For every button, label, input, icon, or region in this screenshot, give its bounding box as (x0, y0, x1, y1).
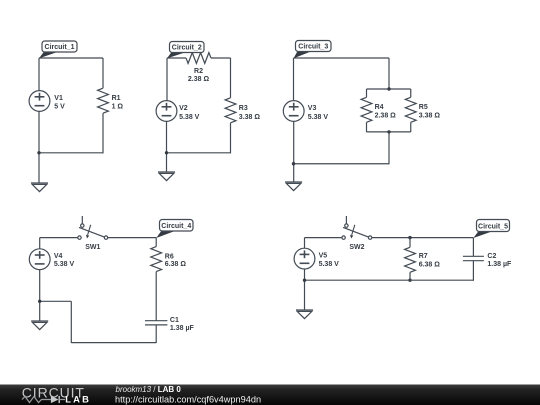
svg-text:Circuit_5: Circuit_5 (478, 224, 508, 231)
svg-text:R7: R7 (419, 253, 428, 260)
svg-text:2.38 Ω: 2.38 Ω (188, 76, 210, 83)
svg-text:SW1: SW1 (85, 244, 100, 251)
svg-text:3.38 Ω: 3.38 Ω (419, 112, 441, 119)
svg-text:brookm13 / LAB 0: brookm13 / LAB 0 (116, 385, 182, 394)
svg-text:5.38 V: 5.38 V (308, 114, 329, 121)
svg-text:Circuit_4: Circuit_4 (161, 223, 191, 230)
svg-text:1.38 µF: 1.38 µF (170, 325, 195, 332)
svg-text:C1: C1 (170, 317, 179, 324)
svg-text:1 Ω: 1 Ω (112, 104, 124, 111)
svg-text:Circuit_3: Circuit_3 (298, 44, 328, 51)
svg-text:http://circuitlab.com/cqf6v4wp: http://circuitlab.com/cqf6v4wpn94dn (115, 394, 261, 404)
svg-text:6.38 Ω: 6.38 Ω (165, 261, 187, 268)
svg-text:V5: V5 (319, 253, 328, 260)
svg-text:2.38 Ω: 2.38 Ω (375, 112, 397, 119)
svg-text:5.38 V: 5.38 V (319, 261, 340, 268)
svg-text:6.38 Ω: 6.38 Ω (419, 262, 441, 269)
svg-text:R1: R1 (112, 95, 121, 102)
svg-text:5.38 V: 5.38 V (179, 114, 200, 121)
svg-text:Circuit_2: Circuit_2 (172, 45, 202, 52)
svg-text:R2: R2 (194, 68, 203, 75)
svg-text:5 V: 5 V (54, 104, 65, 111)
svg-text:V4: V4 (54, 253, 63, 260)
svg-text:Circuit_1: Circuit_1 (45, 44, 75, 51)
svg-text:R3: R3 (239, 105, 248, 112)
svg-text:LAB: LAB (65, 394, 91, 405)
svg-text:V3: V3 (308, 105, 317, 112)
svg-text:V2: V2 (179, 105, 188, 112)
svg-text:R5: R5 (419, 104, 428, 111)
svg-text:V1: V1 (54, 95, 63, 102)
svg-text:R4: R4 (375, 104, 384, 111)
svg-text:1.38 µF: 1.38 µF (487, 261, 512, 268)
svg-text:SW2: SW2 (349, 244, 364, 251)
svg-text:5.38 V: 5.38 V (54, 261, 75, 268)
svg-text:R6: R6 (165, 253, 174, 260)
svg-text:C2: C2 (487, 253, 496, 260)
svg-text:3.38 Ω: 3.38 Ω (239, 114, 261, 121)
